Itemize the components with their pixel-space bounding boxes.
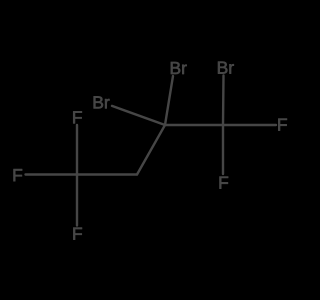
- node Br (on C1, top): [218, 62, 234, 74]
- wire: bond C4-C3: [77, 173, 137, 175]
- wire: bond C1-F down: [222, 125, 224, 174]
- node Br (on C2, top): [171, 62, 187, 74]
- wire: bond C2-C1: [165, 124, 223, 126]
- wire: bond C2-Br left: [112, 106, 165, 125]
- wire: bond C1-F right: [223, 124, 276, 126]
- wire: bond C4-F up: [76, 125, 78, 175]
- wire: bond C4-F left: [26, 173, 78, 175]
- node F (on C1, right): [278, 119, 287, 131]
- node F (on C4, up): [73, 111, 82, 123]
- node Br (on C2, left): [94, 96, 110, 108]
- node F (on C4, left): [14, 169, 23, 181]
- wire: bond C4-F down: [76, 175, 78, 226]
- node F (on C1, down): [220, 177, 229, 189]
- node F (on C4, down): [73, 228, 82, 240]
- wire: bond C3-C2: [137, 125, 165, 175]
- wire: bond C2-Br top: [165, 76, 173, 125]
- wire: bond C1-Br top: [222, 76, 225, 126]
